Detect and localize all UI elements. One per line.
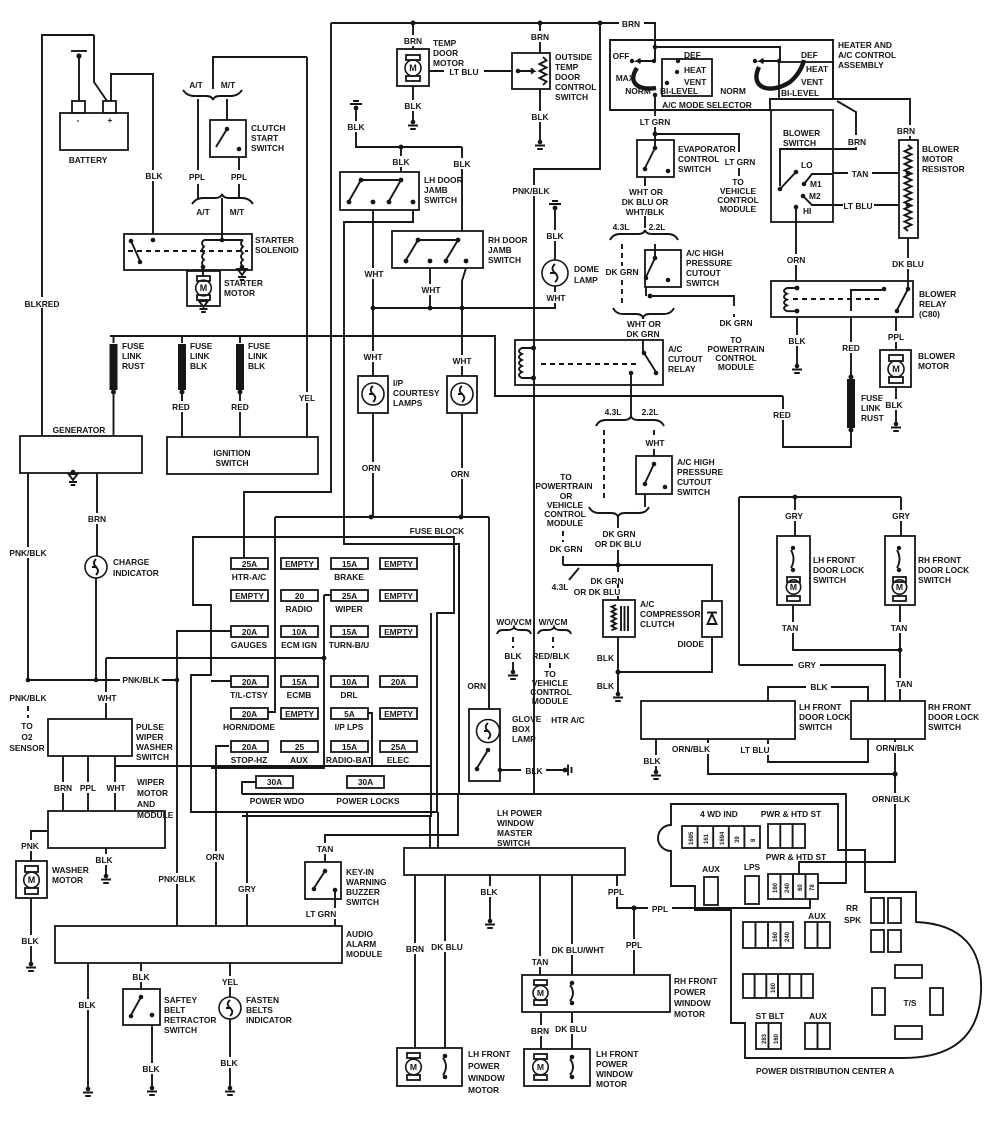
svg-text:M: M	[537, 988, 544, 998]
svg-text:GENERATOR: GENERATOR	[53, 425, 106, 435]
svg-text:CHARGE: CHARGE	[113, 557, 150, 567]
svg-text:WHT/BLK: WHT/BLK	[626, 207, 665, 217]
svg-text:LT BLU: LT BLU	[843, 201, 872, 211]
svg-text:BLK: BLK	[145, 171, 162, 181]
wire BRN to outside temp switch	[539, 23, 541, 53]
svg-text:DK GRN: DK GRN	[549, 544, 582, 554]
svg-text:25A: 25A	[391, 742, 406, 752]
wire DK GRN OR DK BLU merge to compressor junction	[617, 517, 619, 565]
A/C compressor clutch	[603, 600, 635, 637]
wire BRN selector to blower resistor	[833, 99, 910, 140]
wire GRY fuse block to audio module	[246, 812, 248, 926]
svg-text:OR DK BLU: OR DK BLU	[595, 539, 642, 549]
wire DK BLU resistor to relay	[907, 238, 909, 287]
svg-text:A/C HIGH: A/C HIGH	[686, 248, 724, 258]
blower motor resistor	[899, 140, 918, 238]
svg-text:RH DOOR: RH DOOR	[488, 235, 528, 245]
svg-text:BLK: BLK	[810, 682, 827, 692]
svg-text:BLK: BLK	[220, 1058, 237, 1068]
svg-text:BLK: BLK	[142, 1064, 159, 1074]
wire GRY door lock feed	[739, 497, 901, 665]
svg-text:WINDOW: WINDOW	[674, 998, 711, 1008]
svg-text:TAN: TAN	[852, 169, 869, 179]
svg-text:HTR-A/C: HTR-A/C	[232, 572, 266, 582]
selector left dial arc	[633, 68, 656, 89]
wire YEL to fasten belts indicator	[229, 963, 231, 997]
wire LT GRN selector output	[654, 95, 656, 134]
svg-text:POWER WDO: POWER WDO	[250, 796, 305, 806]
wire BLK battery to starter solenoid	[111, 74, 153, 234]
svg-text:LT BLU: LT BLU	[449, 67, 478, 77]
svg-text:SWITCH: SWITCH	[799, 722, 832, 732]
svg-text:TAN: TAN	[317, 844, 334, 854]
svg-text:NORM: NORM	[720, 86, 746, 96]
svg-text:M: M	[790, 582, 797, 592]
wire 2.2L branch	[654, 244, 656, 258]
wire BLK jamb ground bus	[356, 108, 462, 147]
svg-text:DIODE: DIODE	[677, 639, 704, 649]
svg-text:PWR & HTD ST: PWR & HTD ST	[761, 809, 822, 819]
svg-text:LT BLU: LT BLU	[740, 745, 769, 755]
A/C cutout relay	[515, 340, 663, 385]
wire evaporator output	[644, 177, 646, 228]
svg-text:SOLENOID: SOLENOID	[255, 245, 299, 255]
svg-text:BRN: BRN	[848, 137, 866, 147]
svg-text:HEATER AND: HEATER AND	[838, 40, 892, 50]
svg-text:RED: RED	[773, 410, 791, 420]
wire DK BLU master switch to LH motor	[444, 875, 446, 1048]
svg-text:DOOR LOCK: DOOR LOCK	[813, 565, 864, 575]
svg-text:M: M	[896, 582, 903, 592]
wire PNK/BLK dome lamp feed	[534, 23, 600, 794]
svg-text:LH DOOR: LH DOOR	[424, 175, 463, 185]
svg-text:BLK: BLK	[531, 112, 548, 122]
connector AUX mid block	[805, 922, 830, 948]
svg-text:RADIO: RADIO	[286, 604, 313, 614]
fuse link blk F3	[239, 336, 241, 343]
svg-text:MOTOR: MOTOR	[918, 361, 949, 371]
ground battery negative	[71, 50, 87, 52]
svg-text:BUZZER: BUZZER	[346, 887, 380, 897]
connector AUX cell	[704, 877, 718, 905]
svg-text:MOTOR: MOTOR	[922, 154, 953, 164]
ground washer motor	[26, 962, 36, 971]
ground lower LH switch	[651, 770, 661, 779]
svg-text:20A: 20A	[242, 677, 257, 687]
wire switch output to junction	[645, 287, 647, 296]
svg-text:CONTROL: CONTROL	[555, 82, 596, 92]
svg-text:RR: RR	[846, 903, 858, 913]
svg-text:BLK: BLK	[643, 756, 660, 766]
RH front door lock switch upper	[885, 536, 915, 605]
svg-text:BLKRED: BLKRED	[25, 299, 60, 309]
svg-text:160: 160	[771, 982, 777, 993]
wire 4.3L dashed branch lower	[603, 430, 605, 502]
svg-text:DRL: DRL	[340, 690, 357, 700]
svg-text:10A: 10A	[342, 677, 357, 687]
ground audio module	[83, 1087, 93, 1096]
svg-text:STARTER: STARTER	[255, 235, 294, 245]
svg-text:PNK/BLK: PNK/BLK	[9, 693, 46, 703]
svg-text:WHT: WHT	[97, 693, 117, 703]
svg-text:SWITCH: SWITCH	[164, 1025, 197, 1035]
svg-text:BLK: BLK	[95, 855, 112, 865]
svg-text:START: START	[251, 133, 279, 143]
fuse 25A WIPER	[331, 590, 368, 601]
fuse 5A I/P LPS	[331, 708, 368, 719]
wire PNK/BLK gauges to audio module	[176, 680, 178, 926]
svg-text:BLK: BLK	[504, 651, 521, 661]
svg-text:PRESSURE: PRESSURE	[677, 467, 723, 477]
svg-text:BATTERY: BATTERY	[69, 155, 108, 165]
svg-text:BLK: BLK	[546, 231, 563, 241]
wire BLK fasten belts ground	[229, 1019, 231, 1086]
svg-text:5A: 5A	[344, 709, 355, 719]
fuse 25A HTR-A/C	[231, 558, 268, 569]
svg-text:SWITCH: SWITCH	[813, 575, 846, 585]
svg-text:BLOWER: BLOWER	[922, 144, 959, 154]
starter motor	[187, 271, 220, 306]
power distribution center A outline	[658, 804, 981, 1058]
svg-text:PPL: PPL	[80, 783, 96, 793]
svg-text:PPL: PPL	[652, 904, 668, 914]
wire BLK blower motor ground	[895, 387, 897, 422]
evaporator control switch	[637, 140, 674, 177]
wire master switch feeds	[430, 812, 438, 848]
blower relay	[771, 281, 913, 317]
svg-text:TO: TO	[21, 721, 33, 731]
wire RED blower relay to fuse link	[850, 317, 852, 377]
svg-text:20A: 20A	[242, 627, 257, 637]
svg-text:WIPER: WIPER	[137, 777, 164, 787]
wire top frame left to HTR-A/C fuse	[244, 23, 331, 558]
svg-text:SENSOR: SENSOR	[9, 743, 44, 753]
fuse 20 RADIO	[281, 590, 318, 601]
svg-text:WHT: WHT	[645, 438, 665, 448]
ground starter solenoid coil	[238, 269, 247, 280]
svg-text:DOME: DOME	[574, 264, 600, 274]
wire junction bus to diode	[563, 565, 712, 601]
svg-text:4 WD IND: 4 WD IND	[700, 809, 738, 819]
fuse 30A POWER LOCKS	[347, 776, 384, 788]
svg-text:OUTSIDE: OUTSIDE	[555, 52, 593, 62]
svg-text:EMPTY: EMPTY	[235, 591, 264, 601]
svg-text:DOOR LOCK: DOOR LOCK	[918, 565, 969, 575]
svg-text:WIPER: WIPER	[136, 732, 163, 742]
ground blower motor	[891, 422, 901, 431]
wire ORN lamp2 to fuse block	[461, 413, 463, 517]
wire BLK compressor to ground junction	[617, 637, 619, 672]
wire BLK master switch ground	[489, 875, 491, 919]
fuse link rust right	[849, 375, 854, 380]
svg-text:ECM IGN: ECM IGN	[281, 640, 317, 650]
generator	[20, 436, 142, 473]
svg-text:BLK: BLK	[597, 681, 614, 691]
svg-text:161: 161	[704, 833, 710, 844]
svg-text:ASSEMBLY: ASSEMBLY	[838, 60, 884, 70]
wire charge indicator to pnk/blk bus	[95, 578, 97, 680]
svg-text:15A: 15A	[342, 742, 357, 752]
A/C high pressure cutout switch upper	[645, 250, 681, 287]
fuse 20A GAUGES	[231, 626, 268, 637]
svg-text:WINDOW: WINDOW	[497, 818, 534, 828]
svg-text:DOOR: DOOR	[555, 72, 580, 82]
svg-text:A/C CONTROL: A/C CONTROL	[838, 50, 896, 60]
wire WHT wiper feed long	[115, 765, 431, 767]
svg-text:CLUTCH: CLUTCH	[251, 123, 285, 133]
fuse block outline outer	[191, 537, 454, 812]
svg-text:DOOR LOCK: DOOR LOCK	[799, 712, 850, 722]
svg-text:M/T: M/T	[230, 207, 245, 217]
svg-text:DK GRN: DK GRN	[602, 529, 635, 539]
wire 30A fuse to main bus	[242, 782, 256, 794]
fuse EMPTY r1b	[281, 558, 318, 569]
svg-text:DK GRN: DK GRN	[605, 267, 638, 277]
wire BLK to safety belt switch	[140, 963, 142, 989]
wire DK GRN dashed to junction	[562, 531, 564, 542]
svg-text:4.3L: 4.3L	[552, 582, 569, 592]
svg-text:MOTOR: MOTOR	[52, 875, 83, 885]
svg-text:JAMB: JAMB	[488, 245, 512, 255]
svg-text:A/T: A/T	[189, 80, 203, 90]
IP courtesy lamp 1	[358, 376, 388, 413]
svg-text:RED: RED	[231, 402, 249, 412]
fuse 30A POWER WDO	[256, 776, 293, 788]
svg-text:BLK: BLK	[132, 972, 149, 982]
wire BLK lower LH switch ground	[655, 739, 657, 770]
IP courtesy lamp 2	[447, 376, 477, 413]
wire PNK/BLK generator down	[28, 473, 177, 680]
fuse 15A RADIO-BAT	[331, 741, 368, 752]
wire BRN top bus	[331, 23, 655, 40]
fuse EMPTY r2a	[231, 590, 268, 601]
label PNK/BLK on bus	[120, 674, 162, 685]
svg-text:SWITCH: SWITCH	[346, 897, 379, 907]
svg-text:TAN: TAN	[532, 957, 549, 967]
svg-text:WHT: WHT	[421, 285, 441, 295]
wire ORN lamp1 to fuse block	[372, 413, 374, 517]
wire BRN RH motor to lower motor	[540, 1012, 542, 1049]
wire fuse link F1 to generator	[113, 392, 115, 436]
fuse 15A ECMB	[281, 676, 318, 687]
svg-text:ORN/BLK: ORN/BLK	[872, 794, 910, 804]
fuse block outline inner	[344, 544, 459, 794]
svg-text:BLK: BLK	[597, 653, 614, 663]
svg-text:SWITCH: SWITCH	[783, 138, 816, 148]
node brace merge lower	[589, 507, 649, 517]
node junction courtesy bus lamp2	[460, 306, 465, 311]
fuse EMPTY r2d	[380, 590, 417, 601]
svg-text:160: 160	[773, 931, 779, 942]
svg-text:AUX: AUX	[702, 864, 720, 874]
wire BLK audio module ground left	[87, 963, 89, 1087]
node junction PPL	[631, 905, 636, 910]
svg-text:2.2L: 2.2L	[642, 407, 659, 417]
wire solenoid to starter motor	[202, 267, 204, 277]
svg-text:PNK/BLK: PNK/BLK	[9, 548, 46, 558]
svg-text:ORN: ORN	[451, 469, 470, 479]
svg-text:HORN/DOME: HORN/DOME	[223, 722, 276, 732]
wire fuse block top bus	[268, 517, 489, 712]
ground outside temp switch	[535, 140, 545, 149]
svg-text:YEL: YEL	[299, 393, 315, 403]
svg-text:EMPTY: EMPTY	[384, 627, 413, 637]
node junction charge indicator on bus	[94, 678, 99, 683]
svg-text:WIPER: WIPER	[335, 604, 362, 614]
wire TAN master switch to RH motor	[539, 875, 541, 975]
svg-text:A/C HIGH: A/C HIGH	[677, 457, 715, 467]
svg-text:RED/BLK: RED/BLK	[532, 651, 569, 661]
wire PNK wiper module to washer motor	[31, 831, 48, 861]
svg-text:MOTOR: MOTOR	[674, 1009, 705, 1019]
ground safety belt switch	[147, 1086, 157, 1095]
wire LT BLU temp door motor to outside temp switch	[429, 70, 512, 72]
svg-text:COURTESY: COURTESY	[393, 388, 440, 398]
svg-text:ORN: ORN	[787, 255, 806, 265]
charge indicator lamp	[85, 556, 107, 578]
svg-text:20: 20	[295, 591, 305, 601]
svg-text:BRN: BRN	[531, 32, 549, 42]
label BLK	[144, 170, 164, 181]
svg-text:ECMB: ECMB	[287, 690, 312, 700]
svg-text:MOTOR: MOTOR	[596, 1079, 627, 1089]
svg-text:GRY: GRY	[785, 511, 803, 521]
wire main bottom bus to power center	[242, 794, 846, 883]
LH power window master switch	[404, 848, 625, 875]
wire RED F3 to ignition switch	[239, 392, 241, 437]
svg-text:AUX: AUX	[290, 755, 308, 765]
svg-text:BLOWER: BLOWER	[783, 128, 820, 138]
svg-text:10A: 10A	[292, 627, 307, 637]
svg-text:BLK: BLK	[190, 361, 207, 371]
svg-text:EMPTY: EMPTY	[384, 591, 413, 601]
svg-text:MODULE: MODULE	[720, 204, 757, 214]
svg-text:4.3L: 4.3L	[613, 222, 630, 232]
svg-text:DOOR: DOOR	[433, 48, 458, 58]
svg-text:TAN: TAN	[782, 623, 799, 633]
wire TAN fuse block to key-in switch	[325, 794, 458, 862]
wire YEL ignition feed vertical	[306, 57, 308, 437]
starter solenoid	[124, 234, 252, 270]
svg-text:EMPTY: EMPTY	[285, 709, 314, 719]
svg-text:RH FRONT: RH FRONT	[674, 976, 718, 986]
svg-text:FUSE: FUSE	[248, 341, 271, 351]
svg-text:MOTOR: MOTOR	[224, 288, 255, 298]
wire GRY to RH front door lock switch	[900, 497, 902, 536]
ground wiper module	[101, 874, 111, 883]
safety belt retractor switch	[123, 989, 160, 1025]
wire PPL junction to power center	[634, 899, 810, 908]
connector 4WD IND block	[682, 826, 760, 848]
svg-text:ORN: ORN	[362, 463, 381, 473]
svg-text:SWITCH: SWITCH	[215, 458, 248, 468]
temp door motor	[397, 49, 429, 86]
diode D1	[702, 601, 722, 637]
svg-text:PPL: PPL	[626, 940, 642, 950]
svg-text:A/C: A/C	[668, 344, 682, 354]
svg-text:AUX: AUX	[808, 911, 826, 921]
wire ORN/BLK lower LH to junction	[708, 739, 895, 774]
svg-text:POWER: POWER	[674, 987, 706, 997]
connector PWR HTD ST block upper	[768, 824, 805, 848]
wire ORN blower switch HI to relay	[795, 207, 797, 281]
RH front door lock switch lower	[851, 701, 925, 739]
svg-text:MOTOR: MOTOR	[468, 1085, 499, 1095]
svg-text:M2: M2	[809, 191, 821, 201]
svg-text:LINK: LINK	[190, 351, 210, 361]
wire ORN/BLK lower RH to power center	[799, 739, 895, 874]
svg-text:RELAY: RELAY	[919, 299, 947, 309]
node junction LH jamb blk	[399, 145, 404, 150]
wire BRN pulse switch to wiper motor	[62, 756, 64, 811]
selector inner box left	[662, 59, 712, 96]
connector RR SPK cells	[871, 898, 884, 923]
svg-text:BELT: BELT	[164, 1005, 186, 1015]
svg-text:BI-LEVEL: BI-LEVEL	[660, 86, 698, 96]
wire BLK glove box lamp ground	[500, 769, 563, 771]
svg-text:78: 78	[810, 884, 816, 891]
node junction pnk/blk drop	[598, 21, 603, 26]
blower switch	[771, 110, 833, 222]
svg-text:20A: 20A	[242, 742, 257, 752]
svg-text:BLK: BLK	[480, 887, 497, 897]
svg-text:SWITCH: SWITCH	[424, 195, 457, 205]
key-in warning buzzer switch	[305, 862, 341, 899]
svg-text:RESISTOR: RESISTOR	[922, 164, 965, 174]
fuse 20A STOP-HZ	[231, 741, 268, 752]
svg-text:T/S: T/S	[903, 998, 916, 1008]
LH front power window motor left	[397, 1048, 462, 1086]
svg-text:LH FRONT: LH FRONT	[813, 555, 856, 565]
svg-text:GRY: GRY	[238, 884, 256, 894]
wire DK GRN to powertrain control module	[650, 296, 734, 318]
ground WO/VCM	[508, 670, 518, 679]
wire WHT OR DK GRN to relay	[642, 318, 644, 353]
svg-text:DK BLU: DK BLU	[555, 1024, 587, 1034]
svg-text:SWITCH: SWITCH	[136, 752, 169, 762]
blower motor	[880, 350, 911, 387]
wire M/T branch to clutch switch	[226, 99, 228, 120]
ground compressor clutch	[617, 672, 619, 692]
RH door jamb switch	[392, 231, 483, 268]
svg-text:PULSE: PULSE	[136, 722, 164, 732]
wire battery positive feed	[94, 35, 107, 101]
fuse EMPTY r3d	[380, 626, 417, 637]
connector PWR HTD ST block lower	[768, 874, 818, 899]
svg-text:240: 240	[785, 931, 791, 942]
svg-text:BELTS: BELTS	[246, 1005, 273, 1015]
svg-text:283: 283	[762, 1033, 768, 1044]
svg-text:4.3L: 4.3L	[605, 407, 622, 417]
svg-text:SWITCH: SWITCH	[928, 722, 961, 732]
svg-text:AND: AND	[137, 799, 155, 809]
wire PPL master switch to junction	[617, 875, 634, 908]
svg-text:GRY: GRY	[798, 660, 816, 670]
svg-text:HEAT: HEAT	[806, 64, 829, 74]
svg-text:SAFTEY: SAFTEY	[164, 995, 197, 1005]
svg-text:BLOWER: BLOWER	[919, 289, 956, 299]
selector right dial arc	[756, 60, 804, 89]
svg-text:SWITCH: SWITCH	[678, 164, 711, 174]
wire wiper fuse drop	[211, 595, 331, 768]
svg-text:-: -	[77, 115, 80, 125]
svg-text:M/T: M/T	[221, 80, 236, 90]
svg-text:BLK: BLK	[788, 336, 805, 346]
wire BRN master switch to LH motor	[414, 875, 416, 1048]
wire gauges fuse to pnk/blk	[177, 631, 231, 680]
svg-text:BLOWER: BLOWER	[918, 351, 955, 361]
wire DK BLU/WHT master switch to RH motor	[571, 875, 573, 975]
